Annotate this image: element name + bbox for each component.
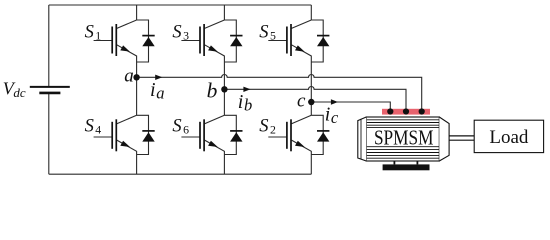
svg-text:4: 4 <box>95 123 101 137</box>
svg-text:dc: dc <box>13 85 26 100</box>
svg-text:i: i <box>325 104 331 126</box>
svg-text:a: a <box>124 66 134 87</box>
svg-text:c: c <box>297 90 306 111</box>
svg-text:i: i <box>238 91 244 113</box>
svg-text:5: 5 <box>270 28 276 42</box>
svg-text:c: c <box>331 108 339 127</box>
svg-text:S: S <box>85 22 94 42</box>
svg-text:2: 2 <box>270 123 276 137</box>
svg-text:a: a <box>156 84 164 103</box>
svg-text:S: S <box>172 22 181 42</box>
svg-text:b: b <box>207 78 218 102</box>
svg-text:S: S <box>85 116 94 136</box>
svg-text:Load: Load <box>489 127 529 148</box>
svg-text:SPMSM: SPMSM <box>374 127 434 150</box>
svg-text:S: S <box>259 22 268 42</box>
svg-text:i: i <box>150 79 156 101</box>
svg-text:S: S <box>259 116 268 136</box>
svg-text:1: 1 <box>95 28 101 42</box>
svg-text:b: b <box>244 96 252 115</box>
svg-text:S: S <box>172 116 181 136</box>
svg-text:3: 3 <box>183 28 189 42</box>
svg-text:6: 6 <box>183 123 189 137</box>
